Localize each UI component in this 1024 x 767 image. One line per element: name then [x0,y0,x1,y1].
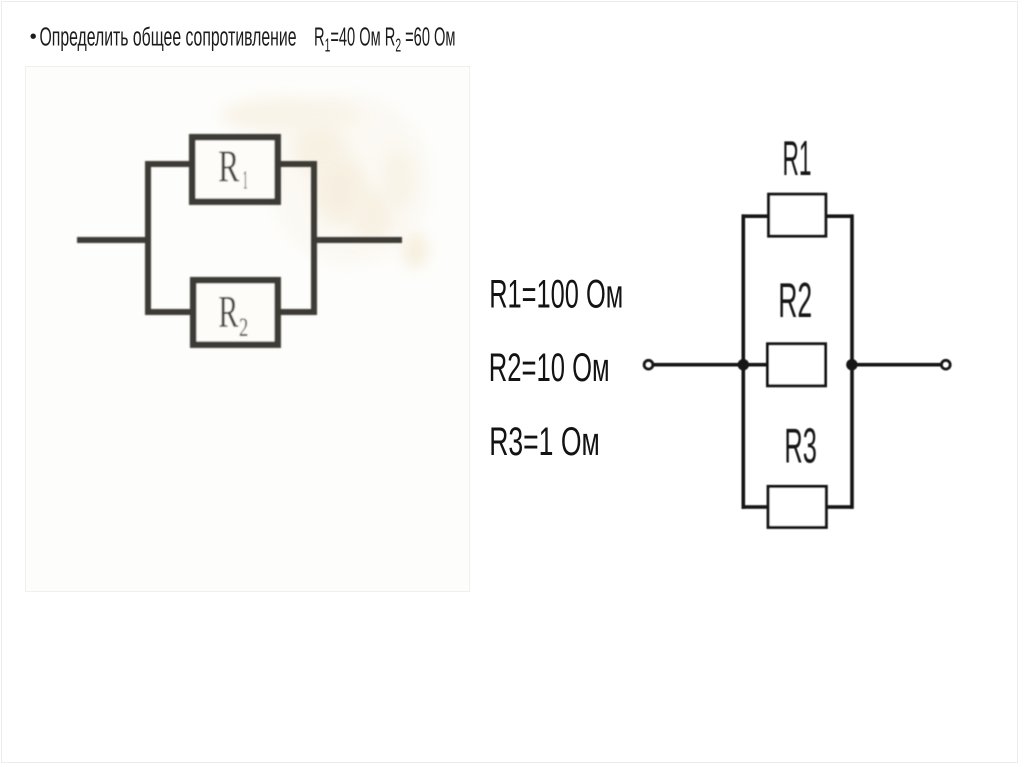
svg-text:R: R [218,141,239,192]
svg-text:R: R [218,286,238,337]
values text R1=100 Ом [489,273,623,317]
wire: left vertical bus [145,161,151,315]
wire: bottom branch left segment [145,309,193,315]
label R2 [778,274,812,328]
label R1 [783,132,812,186]
terminal left (open circle) [644,360,653,369]
svg-text:R2: R2 [778,274,812,328]
wire: top branch left segment [742,214,769,218]
svg-text:Определить общее сопротивление: Определить общее сопротивление [40,23,297,51]
resistor R3 (right circuit box) [768,486,826,527]
wire: left lead to node A [652,363,766,367]
node B junction dot [846,359,857,370]
resistor R2 (left circuit box) [193,280,278,345]
svg-text:R3: R3 [784,419,817,473]
svg-text:R2=10 Ом: R2=10 Ом [489,346,610,390]
wire: exit lead [314,237,402,243]
label R2 (serif) [218,286,248,342]
bullet [31,34,36,39]
svg-text:R3=1 Ом: R3=1 Ом [489,420,600,464]
wire: top branch right segment [826,214,853,218]
svg-text:R1: R1 [783,132,812,186]
scanned figure panel [26,67,470,592]
wire: top branch left segment [145,161,192,167]
svg-text:2: 2 [239,313,248,342]
wire: bottom branch right segment [826,505,853,509]
values text R3=1 Ом [489,420,600,464]
label R1 (serif) [218,141,247,195]
wire: node B to right terminal [853,363,941,367]
resistor R2 (right circuit box) [768,344,826,386]
heading text: Определить общее сопротивление [40,23,297,51]
node A junction dot [738,359,749,370]
values text R2=10 Ом [489,346,610,390]
wire: bottom branch right segment [275,309,317,315]
heading values: R1=40 Ом R2 =60 Ом [314,23,456,55]
wire: bottom branch left segment [742,505,769,509]
resistor R1 (left circuit box) [192,137,278,202]
resistor R1 (right circuit box) [769,194,826,236]
svg-text:R1=40 Ом R2 =60 Ом: R1=40 Ом R2 =60 Ом [314,23,456,55]
wire: right vertical bus [850,214,854,508]
wire: left vertical bus [742,214,746,508]
left circuit (scanned) [77,137,402,345]
label R3 [784,419,817,473]
wire: top branch right segment [275,161,317,167]
svg-text:1: 1 [243,166,248,195]
scan stain blotches [220,95,430,268]
terminal right (open circle) [941,360,950,369]
right circuit [644,132,950,527]
wire: right vertical bus [311,161,317,315]
wire: entry lead [77,237,148,243]
svg-text:R1=100 Ом: R1=100 Ом [489,273,623,317]
